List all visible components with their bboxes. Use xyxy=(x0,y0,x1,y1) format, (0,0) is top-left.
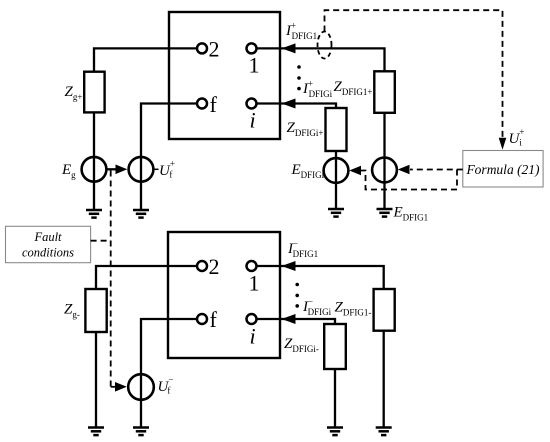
terminal 1 (top box) xyxy=(247,43,257,53)
dashed wire (to Uf- arrow) xyxy=(111,386,116,388)
arrow I_DFIG1- (into box) xyxy=(282,261,296,271)
wire (Zg+ bottom through Eg to ground) xyxy=(93,112,95,209)
resistor Z_DFIG1+ xyxy=(374,71,395,113)
arrow into Uf- xyxy=(115,382,127,392)
network box N- (negative sequence) xyxy=(168,232,280,358)
source E_DFIGi xyxy=(324,158,349,183)
dashed wire (Formula output to E_DFIG1) xyxy=(410,169,463,171)
ellipsis dots (units 1..i, bottom) xyxy=(295,283,299,308)
wire (Z_DFIG1+ bottom through E_DFIG1 to ground) xyxy=(383,113,385,208)
wire (terminal 1 bottom to Z_DFIG1- top) xyxy=(257,266,384,289)
arrow into E_DFIG1 xyxy=(398,165,410,175)
ground (below Uf+) xyxy=(133,210,149,218)
wire (Z_DFIGi+ bottom through E_DFIGi to ground) xyxy=(335,151,337,208)
ground (below Eg) xyxy=(86,210,102,218)
ground (below Z_DFIGi-) xyxy=(327,428,343,436)
resistor Zg- xyxy=(85,289,106,332)
ellipsis dots (units 1..i) xyxy=(297,65,301,90)
wire (Zg+ top to terminal 2) xyxy=(94,48,197,71)
arrow into E_DFIGi xyxy=(349,166,361,176)
fault conditions box xyxy=(6,226,91,262)
resistor Z_DFIGi- xyxy=(324,324,346,369)
svg-text:Fault: Fault xyxy=(33,230,62,244)
ground (below E_DFIGi) xyxy=(328,209,344,217)
wire (Zg- bottom to ground) xyxy=(95,332,97,428)
wire (terminal i to Z_DFIGi+ top) xyxy=(257,104,336,109)
source E_DFIG1 xyxy=(372,158,397,183)
source Uf+ xyxy=(129,157,154,182)
terminal i (top box) xyxy=(247,99,257,109)
arrow I_DFIGi- (into box) xyxy=(282,314,296,324)
network box N+ (positive sequence) xyxy=(169,12,280,139)
arrow I_DFIGi+ (into box) xyxy=(282,99,296,109)
svg-text:Formula (21): Formula (21) xyxy=(465,162,540,177)
arrow Eg to Uf+ xyxy=(107,165,127,175)
wire (Uf+ riser to terminal f and down to ground) xyxy=(141,104,197,210)
ground (below E_DFIG1) xyxy=(377,209,393,217)
svg-text:2: 2 xyxy=(209,254,220,279)
svg-text:f: f xyxy=(210,92,218,117)
terminal f (top box) xyxy=(197,99,207,109)
wire (terminal 1 to Z_DFIG1+ top) xyxy=(257,48,385,71)
svg-text:i: i xyxy=(250,324,256,349)
terminal 2 (bottom box) xyxy=(197,261,207,271)
ground (below Z_DFIG1-) xyxy=(376,428,392,436)
dashed wire (fault bus vertical) xyxy=(110,171,112,387)
arrow I_DFIG1+ (into box) xyxy=(282,43,296,53)
terminal f (bottom box) xyxy=(197,314,207,324)
label Fault conditions xyxy=(22,230,74,260)
wire (Z_DFIG1- bottom to ground) xyxy=(383,331,385,428)
resistor Z_DFIGi+ xyxy=(326,108,347,151)
wire (terminal i bottom to Z_DFIGi- top) xyxy=(257,319,335,324)
dashed wire (current probe to Formula box input) xyxy=(325,10,503,142)
label Uf+ xyxy=(154,159,175,180)
ground (below Uf-) xyxy=(133,428,149,436)
source Eg xyxy=(82,157,107,182)
wire (Uf- riser to terminal f and down to ground) xyxy=(141,319,197,428)
terminal 1 (bottom box) xyxy=(247,261,257,271)
resistor Zg+ xyxy=(84,72,104,113)
dashed current-probe ellipse xyxy=(318,32,332,59)
formula box xyxy=(463,151,543,188)
dashed wire (Formula output loop to E_DFIGi) xyxy=(361,170,458,190)
dashed wire (fault box to dashed bus) xyxy=(91,240,111,242)
svg-text:1: 1 xyxy=(249,53,260,78)
svg-text:conditions: conditions xyxy=(22,246,74,260)
svg-text:1: 1 xyxy=(249,271,260,296)
svg-text:i: i xyxy=(250,108,256,133)
wire (Z_DFIGi- bottom to ground) xyxy=(334,369,336,428)
svg-text:2: 2 xyxy=(209,37,220,62)
resistor Z_DFIG1- xyxy=(374,289,395,331)
wire (Zg- top to terminal 2 of bottom box) xyxy=(96,266,197,289)
ground (below Zg-) xyxy=(88,428,104,436)
svg-text:f: f xyxy=(210,307,218,332)
arrow U_i+ into Formula box xyxy=(499,138,507,150)
terminal 2 (top box) xyxy=(197,43,207,53)
source Uf- xyxy=(128,374,154,400)
terminal i (bottom box) xyxy=(247,314,257,324)
